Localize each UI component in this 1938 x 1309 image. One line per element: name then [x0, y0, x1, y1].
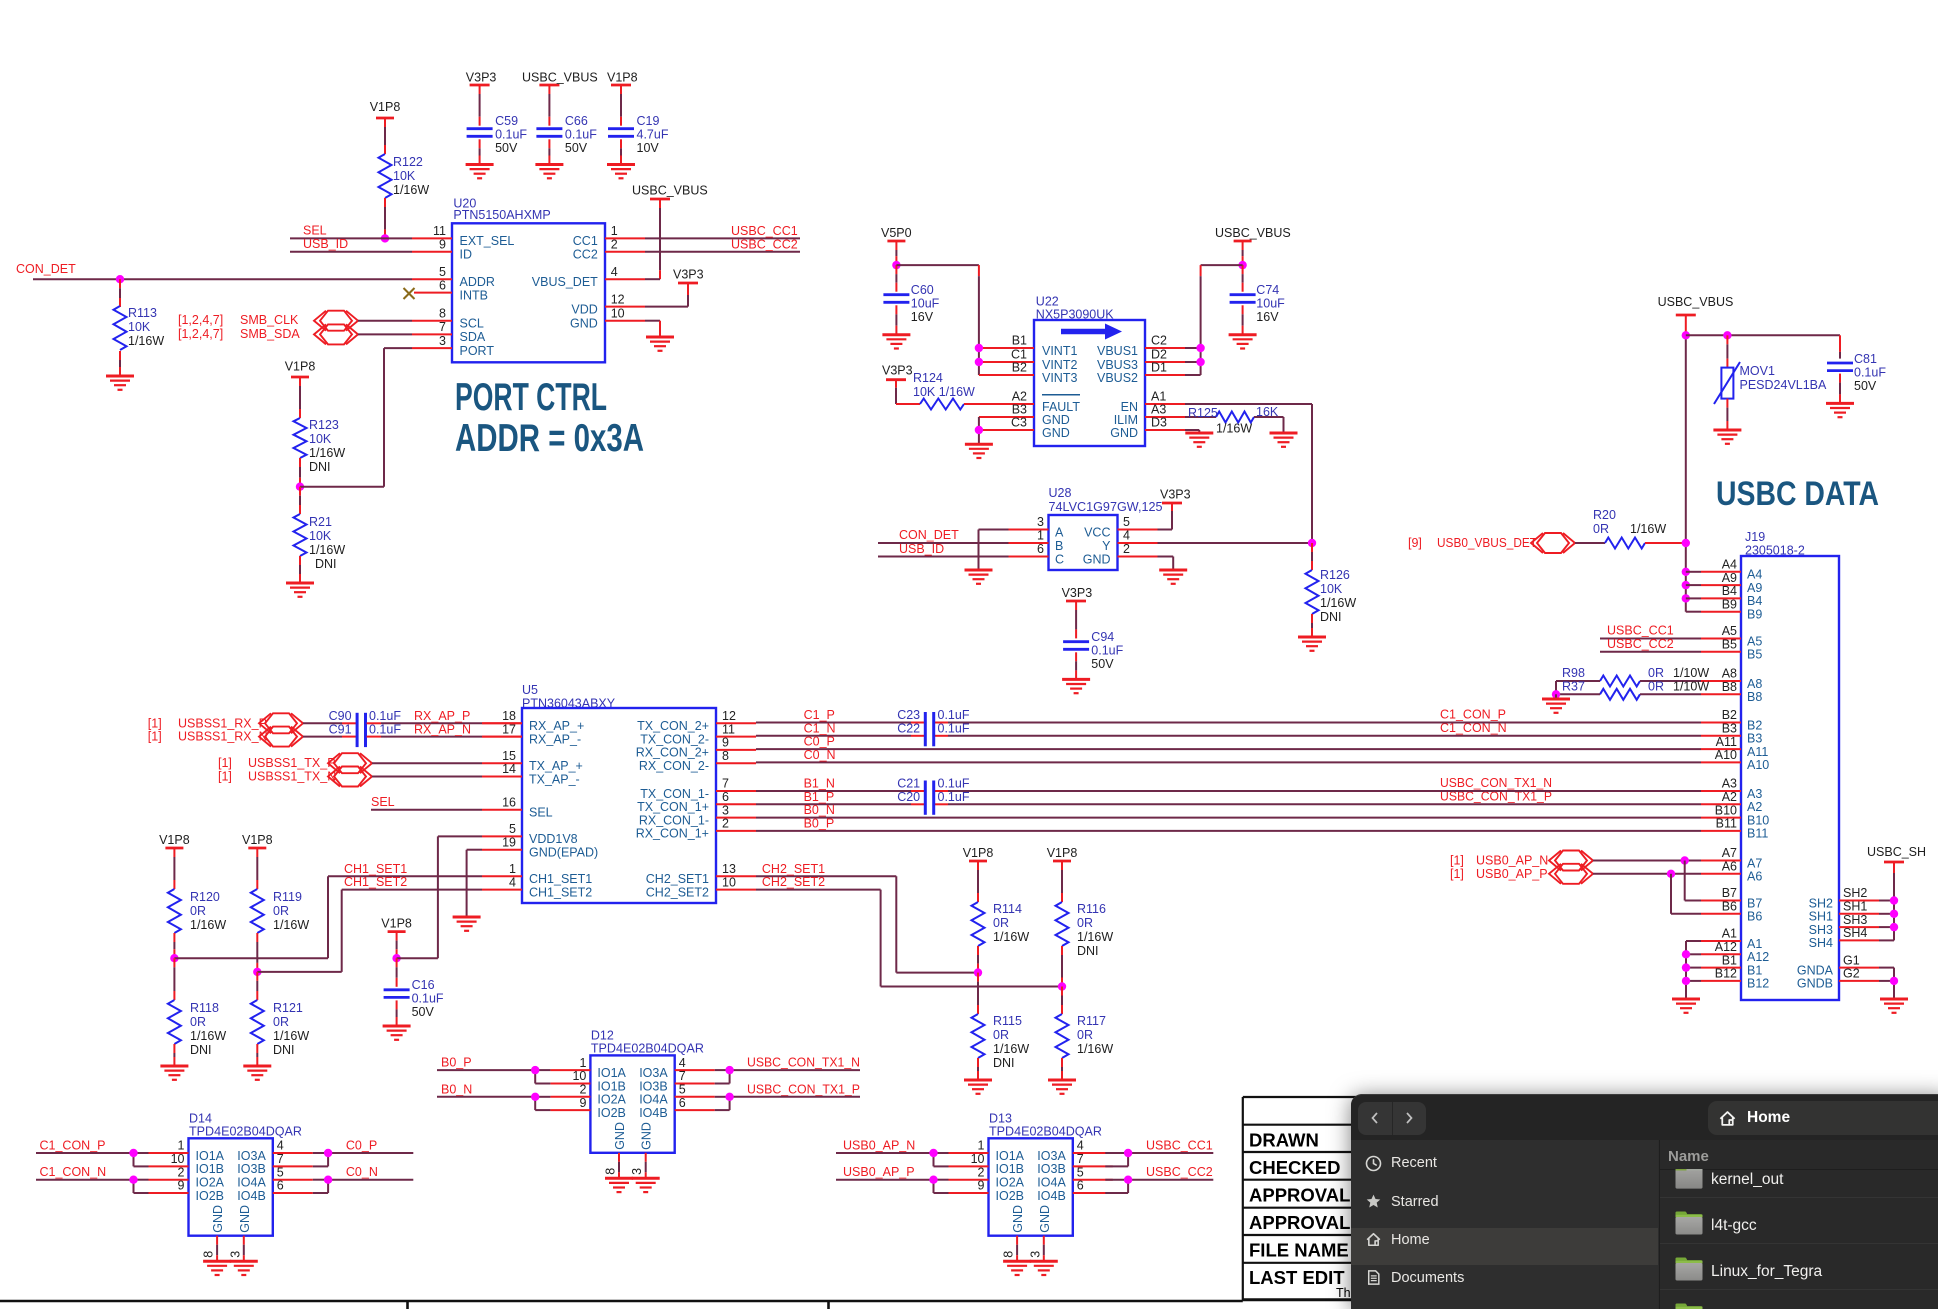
svg-text:5: 5 [277, 1165, 284, 1179]
svg-text:R125: R125 [1188, 406, 1218, 420]
wire USBC_VBUS to U22 VBUS pins [1185, 265, 1243, 375]
svg-text:10K: 10K [393, 169, 416, 183]
ground (C60) [882, 335, 910, 349]
off-page connector USB0_AP_P [1450, 864, 1593, 884]
wire C1_CON_P to J19 B2 [1440, 708, 1506, 722]
svg-text:A3: A3 [1722, 777, 1737, 791]
svg-text:B1: B1 [1012, 334, 1027, 348]
svg-text:GND: GND [1042, 426, 1070, 440]
ground (U20 GND) [646, 337, 674, 351]
svg-text:B8: B8 [1722, 680, 1737, 694]
svg-text:1/16W: 1/16W [1216, 422, 1252, 436]
wire D12 GND pins [604, 1153, 646, 1179]
junction USBC_VBUS/C74 [1238, 261, 1246, 269]
svg-text:IO1A: IO1A [196, 1149, 225, 1163]
back/forward buttons [1358, 1102, 1426, 1135]
svg-text:USBC_CON_TX1_P: USBC_CON_TX1_P [747, 1082, 860, 1096]
svg-text:1: 1 [579, 1056, 586, 1070]
wire V3P3 to U28 VCC [1158, 503, 1173, 530]
junction C1_CON_N/D14 [129, 1176, 137, 1184]
svg-text:7: 7 [679, 1069, 686, 1083]
svg-text:5: 5 [509, 822, 516, 836]
svg-text:3: 3 [630, 1168, 644, 1175]
svg-text:R121: R121 [273, 1001, 303, 1015]
capacitor C91 0.1uF [303, 713, 401, 747]
svg-text:B2: B2 [1722, 708, 1737, 722]
folder row l4t-gcc [1674, 1208, 1704, 1243]
power flag V1P8 (R119) [242, 833, 273, 848]
svg-text:RX_CON_1-: RX_CON_1- [639, 813, 709, 827]
svg-text:A4: A4 [1722, 558, 1737, 572]
svg-text:9: 9 [178, 1179, 185, 1193]
ground (D12 pin 8) [605, 1178, 633, 1192]
junction B0_N/D12 [531, 1093, 539, 1101]
svg-text:B12: B12 [1747, 977, 1769, 991]
svg-text:A5: A5 [1747, 634, 1762, 648]
svg-text:CH2_SET1: CH2_SET1 [762, 862, 825, 876]
junction SEL/R122 [381, 234, 389, 242]
svg-text:B0_N: B0_N [441, 1082, 472, 1096]
svg-text:SEL: SEL [371, 795, 395, 809]
wire V1P8 to R122 [384, 118, 386, 154]
svg-text:10: 10 [171, 1152, 185, 1166]
svg-text:1/16W: 1/16W [393, 183, 429, 197]
wire SEL to U5 pin 16 [371, 795, 482, 810]
svg-text:C16: C16 [412, 978, 435, 992]
header bar [1351, 1094, 1938, 1140]
svg-text:APPROVAL: APPROVAL [1249, 1212, 1350, 1233]
ground (R125) [1270, 433, 1298, 447]
svg-text:DNI: DNI [1320, 610, 1342, 624]
wire C1_P row with capacitor C23 [756, 708, 1701, 723]
wire USBSS1_TX_P to U5 pin 15 [372, 762, 482, 764]
svg-text:G1: G1 [1843, 953, 1860, 967]
svg-text:A6: A6 [1747, 870, 1762, 884]
svg-text:R117: R117 [1077, 1014, 1106, 1028]
svg-text:B3: B3 [1722, 722, 1737, 736]
svg-text:V3P3: V3P3 [1062, 586, 1093, 600]
svg-text:RX_CON_1+: RX_CON_1+ [636, 827, 709, 841]
wire U22 EN to node [1185, 404, 1312, 543]
junction SH3 [1890, 923, 1898, 931]
svg-text:5: 5 [439, 265, 446, 279]
svg-text:C90: C90 [329, 709, 352, 723]
wire CH1_SET2 to U5 pin 4 [342, 875, 482, 972]
path tab Home [1708, 1101, 1938, 1135]
resistor R113 10K [114, 279, 165, 376]
svg-text:A9: A9 [1722, 571, 1737, 585]
svg-text:B1_N: B1_N [804, 777, 835, 791]
wire D12 to USBC_CON_TX1_N [715, 1056, 860, 1084]
wire CON_DET to U20 pin 5 [16, 262, 412, 279]
svg-text:USB_ID: USB_ID [303, 237, 348, 251]
svg-text:APPROVAL: APPROVAL [1249, 1185, 1350, 1206]
svg-text:SH2: SH2 [1843, 886, 1867, 900]
svg-text:GND(EPAD): GND(EPAD) [529, 846, 598, 860]
svg-text:12: 12 [611, 292, 625, 306]
resistor R125 16K [1185, 405, 1284, 436]
power flag V3P3 (U20 VDD) [673, 268, 704, 284]
wire D14 to C0_N [313, 1165, 414, 1193]
svg-text:IO1B: IO1B [996, 1162, 1025, 1176]
svg-text:8: 8 [1002, 1251, 1016, 1258]
svg-text:ADDR = 0x3A: ADDR = 0x3A [455, 417, 644, 460]
junction A6/B6 [1667, 870, 1701, 914]
svg-text:[1]: [1] [148, 716, 162, 730]
svg-text:0R: 0R [1593, 522, 1609, 536]
svg-text:SH1: SH1 [1809, 910, 1833, 924]
svg-text:5: 5 [1123, 515, 1130, 529]
svg-text:1/16W: 1/16W [309, 446, 345, 460]
svg-text:A7: A7 [1747, 856, 1762, 870]
wire USBC_CC2 to J19 B5 [1600, 637, 1701, 652]
svg-text:8: 8 [604, 1168, 618, 1175]
wire USB0_AP_P to J19 A6 [1593, 873, 1701, 875]
svg-text:CH2_SET1: CH2_SET1 [646, 872, 709, 886]
svg-text:IO3A: IO3A [1037, 1149, 1066, 1163]
svg-text:C94: C94 [1091, 630, 1114, 644]
svg-text:C0_N: C0_N [804, 748, 836, 762]
svg-text:10uF: 10uF [911, 297, 940, 311]
svg-text:B2: B2 [1012, 361, 1027, 375]
ESD diode D14 TPD4E02B04DQAR [149, 1111, 313, 1235]
svg-text:2: 2 [178, 1165, 185, 1179]
svg-text:IO2A: IO2A [996, 1176, 1025, 1190]
junction USBC_CON_TX1_P/D12 [725, 1093, 733, 1101]
svg-text:USBC_CC1: USBC_CC1 [1607, 624, 1674, 638]
svg-text:9: 9 [978, 1179, 985, 1193]
svg-text:IO2B: IO2B [996, 1189, 1025, 1203]
svg-text:V1P8: V1P8 [159, 833, 190, 847]
junction Y/EN/R126 [1308, 539, 1316, 547]
svg-text:R98: R98 [1562, 666, 1585, 680]
svg-text:0R: 0R [1077, 916, 1093, 930]
svg-text:1/10W: 1/10W [1673, 666, 1709, 680]
wire RX_AP_P to U5 pin 18 [367, 709, 522, 723]
wire GND(EPAD) to ground [467, 850, 482, 917]
svg-text:R113: R113 [128, 306, 157, 320]
svg-text:0R: 0R [1648, 666, 1664, 680]
junction USBC_VBUS/MOV1 branch [1682, 331, 1690, 339]
svg-text:CH2_SET2: CH2_SET2 [646, 885, 709, 899]
junction C0_N/D14 [324, 1176, 332, 1184]
resistor R121 0R DNI [251, 972, 310, 1066]
resistor R116 0R DNI [1056, 861, 1114, 987]
svg-text:DNI: DNI [993, 1056, 1015, 1070]
power flag V1P8 (R116) [1047, 846, 1078, 861]
svg-text:RX_AP_-: RX_AP_- [529, 732, 581, 746]
ground (R117) [1048, 1080, 1076, 1094]
svg-text:C3: C3 [1011, 416, 1027, 430]
wire USBC_CC1 [645, 224, 800, 238]
svg-text:50V: 50V [1854, 379, 1877, 393]
svg-text:VBUS3: VBUS3 [1097, 358, 1138, 372]
svg-text:B0_N: B0_N [804, 803, 835, 817]
wire C1_CON_N to J19 B3 [1440, 721, 1507, 735]
svg-text:0.1uF: 0.1uF [938, 790, 970, 804]
svg-text:A11: A11 [1716, 735, 1737, 749]
svg-text:[1]: [1] [218, 770, 232, 784]
svg-text:1: 1 [978, 1139, 985, 1153]
junction U22 VINT1 [975, 344, 983, 352]
ground (R115) [964, 1080, 992, 1094]
sheet border bottom [0, 1301, 1243, 1309]
resistor R124 10K [896, 371, 994, 410]
svg-text:0.1uF: 0.1uF [938, 708, 970, 722]
wire C1_CON_N to D14 [36, 1165, 149, 1193]
svg-text:1/16W: 1/16W [1077, 930, 1113, 944]
folder row kernel_out [1674, 1169, 1704, 1197]
svg-text:GNDB: GNDB [1797, 977, 1833, 991]
svg-text:TPD4E02B04DQAR: TPD4E02B04DQAR [189, 1125, 302, 1139]
svg-text:DNI: DNI [315, 557, 337, 571]
svg-text:Y: Y [1102, 539, 1111, 553]
svg-text:TPD4E02B04DQAR: TPD4E02B04DQAR [591, 1042, 704, 1056]
svg-text:B2: B2 [1747, 718, 1762, 732]
svg-text:A3: A3 [1151, 403, 1166, 417]
wire J19 A1 group to ground [1686, 941, 1701, 999]
power flag V1P8 (C16) [381, 917, 412, 932]
off-page connector SMB_CLK [178, 311, 358, 331]
wire D13 to USBC_CC2 [1105, 1165, 1213, 1193]
resistor R37 0R [1556, 680, 1709, 700]
svg-text:C23: C23 [897, 708, 920, 722]
svg-text:USBC_CC2: USBC_CC2 [1607, 637, 1674, 651]
svg-text:V3P3: V3P3 [466, 71, 497, 85]
no-connect on U20 INTB [404, 288, 415, 299]
svg-text:[1]: [1] [1450, 854, 1464, 868]
junction USB0_AP_N/D13 [929, 1149, 937, 1157]
svg-text:PESD24VL1BA: PESD24VL1BA [1740, 378, 1828, 392]
capacitor C74 10uF [1230, 265, 1286, 335]
wire B1_N row with capacitor C21 [756, 777, 1701, 792]
wire D14 to C0_P [313, 1139, 414, 1167]
svg-text:1/16W: 1/16W [1630, 522, 1666, 536]
svg-text:14: 14 [502, 762, 516, 776]
wire GNDA/GNDB to ground [1879, 968, 1894, 999]
svg-text:SH3: SH3 [1843, 913, 1867, 927]
svg-text:1/16W: 1/16W [273, 918, 309, 932]
IC U5 PTN36043ABXY redriver [482, 683, 756, 903]
svg-text:IO3B: IO3B [1037, 1162, 1066, 1176]
power flag V1P8 (C19) [607, 71, 638, 86]
svg-text:SEL: SEL [529, 806, 553, 820]
resistor R120 0R [168, 848, 226, 958]
svg-text:3: 3 [228, 1251, 242, 1258]
svg-text:EXT_SEL: EXT_SEL [460, 234, 515, 248]
svg-text:4: 4 [1123, 529, 1130, 543]
svg-text:VDD1V8: VDD1V8 [529, 832, 578, 846]
svg-text:0R: 0R [190, 904, 206, 918]
label PORT CTRL [455, 376, 607, 419]
ground (U28 GND) [1159, 570, 1187, 584]
ground (D13 pin 8) [1003, 1261, 1031, 1275]
ground (R118) [160, 1066, 188, 1080]
junction USBC_CC1/D13 [1124, 1149, 1132, 1157]
junction SH2 [1890, 896, 1898, 904]
junction R120/CH1_SET1 [170, 954, 328, 962]
svg-text:GNDA: GNDA [1797, 963, 1834, 977]
ESD diode D12 TPD4E02B04DQAR [550, 1028, 714, 1152]
svg-text:A8: A8 [1747, 677, 1762, 691]
svg-text:R114: R114 [993, 902, 1022, 916]
svg-text:ILIM: ILIM [1114, 413, 1138, 427]
power flag V3P3 (R124) [882, 364, 913, 380]
svg-text:A2: A2 [1747, 800, 1762, 814]
svg-text:B: B [1055, 539, 1063, 553]
svg-text:A12: A12 [1747, 950, 1769, 964]
svg-text:B3: B3 [1747, 732, 1762, 746]
ground (R126) [1298, 637, 1326, 651]
svg-text:4: 4 [1077, 1139, 1084, 1153]
svg-text:CH1_SET2: CH1_SET2 [344, 875, 407, 889]
svg-text:8: 8 [722, 749, 729, 763]
wire USB0_AP_P to D13 [836, 1165, 949, 1193]
svg-text:74LVC1G97GW,125: 74LVC1G97GW,125 [1049, 500, 1163, 514]
svg-text:USBSS1_TX_N: USBSS1_TX_N [248, 770, 336, 784]
svg-text:SMB_CLK: SMB_CLK [240, 313, 299, 327]
svg-text:B12: B12 [1715, 967, 1737, 981]
ground (J19 A1/B12) [1672, 999, 1700, 1013]
svg-text:IO3B: IO3B [237, 1162, 266, 1176]
svg-text:FAULT: FAULT [1042, 400, 1080, 414]
svg-text:R124: R124 [913, 371, 943, 385]
svg-text:10K: 10K [309, 529, 332, 543]
partial folder row [1674, 1300, 1704, 1309]
svg-text:CH1_SET2: CH1_SET2 [529, 885, 592, 899]
wire B0_P row [756, 816, 1701, 831]
svg-text:USBSS1_TX_P: USBSS1_TX_P [248, 756, 336, 770]
power flag USBC_VBUS (U20 VBUS_DET) [632, 184, 708, 200]
svg-text:IO2A: IO2A [597, 1093, 626, 1107]
wire U22 GND pins to ground [979, 417, 994, 444]
svg-text:V1P8: V1P8 [607, 71, 638, 85]
svg-text:18: 18 [502, 709, 516, 723]
svg-text:LAST EDIT: LAST EDIT [1249, 1267, 1345, 1288]
svg-text:USBC_CC2: USBC_CC2 [731, 238, 798, 252]
svg-text:0.1uF: 0.1uF [1854, 366, 1886, 380]
svg-text:2: 2 [579, 1083, 586, 1097]
svg-text:C21: C21 [897, 777, 920, 791]
svg-text:8: 8 [202, 1251, 216, 1258]
svg-text:15: 15 [502, 749, 516, 763]
svg-text:RX_AP_+: RX_AP_+ [529, 719, 584, 733]
junction SH1 [1890, 910, 1898, 918]
svg-text:B9: B9 [1747, 608, 1762, 622]
svg-text:11: 11 [433, 224, 446, 238]
wire USBC_CC2 [645, 238, 800, 252]
resistor R20 0R [1575, 508, 1686, 549]
wire to J19 B9 [1686, 611, 1701, 613]
resistor R118 0R DNI [168, 958, 226, 1066]
svg-text:3: 3 [1037, 515, 1044, 529]
svg-text:INTB: INTB [460, 288, 488, 302]
svg-text:B7: B7 [1722, 886, 1737, 900]
svg-text:USB0_VBUS_DET: USB0_VBUS_DET [1437, 536, 1537, 550]
svg-text:DNI: DNI [273, 1043, 295, 1057]
svg-text:C74: C74 [1256, 283, 1279, 297]
junction CON_DET/R113 [116, 275, 124, 283]
svg-text:0.1uF: 0.1uF [369, 709, 401, 723]
svg-text:GND: GND [570, 317, 598, 331]
power flag USBC_SH [1867, 845, 1926, 862]
svg-text:B11: B11 [1716, 817, 1737, 831]
svg-text:13: 13 [722, 862, 736, 876]
svg-text:0.1uF: 0.1uF [565, 128, 597, 142]
svg-text:IO2B: IO2B [196, 1189, 225, 1203]
svg-text:USBSS1_RX_P: USBSS1_RX_P [178, 716, 267, 730]
wire CH2_SET1 [756, 862, 978, 973]
svg-text:PORT CTRL: PORT CTRL [455, 376, 607, 419]
junction U22 VBUS1 [1196, 344, 1204, 352]
svg-text:ID: ID [460, 248, 473, 262]
svg-text:6: 6 [1037, 542, 1044, 556]
svg-text:4: 4 [277, 1139, 284, 1153]
svg-text:A6: A6 [1722, 860, 1737, 874]
wire B0_P to D12 [437, 1056, 550, 1084]
file list [1659, 1140, 1938, 1309]
svg-text:1/16W: 1/16W [190, 918, 226, 932]
junction J19 A12 [1682, 950, 1690, 958]
svg-text:A2: A2 [1722, 790, 1737, 804]
svg-text:USB_ID: USB_ID [899, 542, 944, 556]
svg-text:A1: A1 [1151, 390, 1166, 404]
svg-text:IO4A: IO4A [1037, 1176, 1066, 1190]
ground (C16) [383, 1026, 411, 1040]
svg-text:Th: Th [1336, 1286, 1351, 1300]
wire D13 to USBC_CC1 [1105, 1139, 1213, 1167]
ground (D14 pin 3) [230, 1261, 258, 1275]
svg-text:3: 3 [722, 803, 729, 817]
title block [1243, 1097, 1360, 1301]
svg-text:R122: R122 [393, 155, 423, 169]
svg-text:10: 10 [722, 875, 736, 889]
wire R122 to SEL net [384, 198, 386, 238]
off-page connector USBSS1_TX_P [218, 753, 372, 773]
off-page connector USB0_AP_N [1450, 851, 1593, 871]
off-page connector USBSS1_RX_N [148, 727, 303, 747]
wire CH1_SET1 to U5 pin 1 [328, 862, 482, 958]
svg-text:SH1: SH1 [1843, 900, 1867, 914]
svg-text:9: 9 [439, 238, 446, 252]
svg-text:D14: D14 [189, 1111, 212, 1125]
svg-text:GND: GND [238, 1205, 252, 1233]
svg-text:B0_P: B0_P [804, 816, 835, 830]
wire B0_N row [756, 803, 1701, 818]
svg-text:TPD4E02B04DQAR: TPD4E02B04DQAR [989, 1125, 1102, 1139]
svg-text:CH1_SET1: CH1_SET1 [344, 862, 407, 876]
svg-text:RX_CON_2+: RX_CON_2+ [636, 746, 709, 760]
resistor R115 0R DNI [972, 973, 1030, 1080]
svg-text:USBC_VBUS: USBC_VBUS [632, 184, 708, 198]
svg-text:6: 6 [679, 1096, 686, 1110]
svg-text:1: 1 [509, 862, 516, 876]
svg-text:B0_P: B0_P [441, 1056, 472, 1070]
svg-text:2: 2 [1123, 542, 1130, 556]
svg-text:R20: R20 [1593, 508, 1616, 522]
junction A7/B7 [1681, 856, 1702, 900]
resistor R21 10K DNI [294, 487, 346, 583]
svg-text:10: 10 [611, 306, 625, 320]
svg-text:TX_CON_1-: TX_CON_1- [640, 787, 709, 801]
svg-text:PTN5150AHXMP: PTN5150AHXMP [453, 208, 550, 222]
svg-text:C81: C81 [1854, 352, 1877, 366]
svg-text:IO3A: IO3A [237, 1149, 266, 1163]
svg-text:USBC DATA: USBC DATA [1716, 475, 1879, 513]
svg-text:A2: A2 [1012, 390, 1027, 404]
svg-text:50V: 50V [495, 141, 518, 155]
sidebar [1351, 1140, 1658, 1309]
